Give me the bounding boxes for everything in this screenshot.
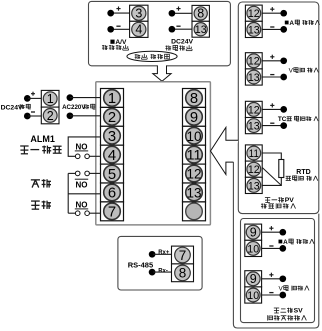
terminal 12 (RTD) [247, 162, 261, 176]
terminal 13 [247, 23, 261, 37]
terminal 1 (DC block) [43, 92, 57, 106]
svg-text:PV: PV [285, 197, 295, 204]
svg-text:NO: NO [76, 200, 88, 209]
terminal 4 cell [130, 21, 148, 37]
svg-text:5: 5 [108, 167, 116, 183]
wire DC24V [28, 97, 41, 99]
terminal 5 [104, 165, 121, 182]
wire [262, 12, 284, 14]
terminal 9 [186, 109, 203, 126]
label forward [31, 200, 40, 202]
svg-text:3: 3 [108, 129, 116, 145]
terminal 12 [247, 6, 261, 20]
resistor RTD [279, 160, 284, 178]
svg-text:13: 13 [187, 184, 202, 200]
SV outer container [233, 162, 318, 328]
svg-text:2: 2 [47, 109, 54, 123]
wire [262, 60, 284, 62]
node - control output [107, 26, 114, 33]
terminal 3 cell [130, 5, 148, 21]
relay contact NO alarm1 [68, 137, 100, 156]
terminal 11 [186, 146, 203, 163]
svg-text:9: 9 [190, 110, 198, 126]
svg-text:12: 12 [248, 8, 260, 20]
node - DC24V [24, 113, 31, 120]
svg-text:12: 12 [248, 56, 260, 68]
big hollow arrow left [211, 127, 239, 174]
wire [262, 231, 283, 233]
svg-text:11: 11 [249, 148, 259, 160]
svg-text:SV: SV [294, 308, 304, 315]
svg-text:13: 13 [248, 24, 260, 36]
svg-text:8: 8 [197, 7, 204, 21]
svg-text:1: 1 [108, 91, 116, 107]
svg-text:A: A [283, 239, 288, 246]
ellipse label output wiring diagram [127, 51, 177, 61]
hollow arrow down [157, 65, 167, 67]
svg-text:8: 8 [179, 266, 187, 281]
terminal 3 [132, 6, 146, 20]
terminal 13 cell (top box) [192, 21, 209, 37]
node Rx- [149, 269, 156, 276]
node + [279, 275, 286, 282]
node AC220V L [67, 94, 74, 101]
svg-text:7: 7 [108, 205, 116, 221]
svg-text:RS-485: RS-485 [128, 261, 153, 270]
label mA/V control output [110, 40, 114, 44]
terminal 13 (top box) [194, 23, 207, 36]
terminal 13 [247, 119, 261, 133]
SV input box [241, 219, 315, 323]
output wiring box [89, 1, 231, 65]
node - [279, 292, 286, 299]
svg-text:2: 2 [108, 110, 116, 126]
right terminal column cells [183, 89, 206, 108]
svg-text:13: 13 [248, 121, 260, 133]
svg-text:V: V [289, 67, 294, 74]
svg-text:ALM1: ALM1 [30, 134, 55, 144]
svg-text:1: 1 [47, 92, 54, 106]
terminal 2 cell (DC block) [41, 107, 59, 124]
svg-text:RTD: RTD [296, 169, 310, 176]
node + DC24V [24, 95, 31, 102]
terminal 10 cell [245, 240, 262, 256]
svg-text:10: 10 [187, 128, 202, 144]
terminal 10 [246, 242, 260, 256]
terminal 4 [132, 22, 146, 36]
svg-text:12: 12 [248, 104, 260, 116]
terminal 9 [246, 225, 260, 239]
svg-text:Rx-: Rx- [158, 268, 168, 274]
node + [280, 106, 287, 113]
terminal 7 (RS485) [175, 247, 191, 263]
node - [280, 74, 287, 81]
terminal 12 [247, 54, 261, 68]
terminal 11 (RTD) [247, 146, 261, 160]
node + [279, 229, 286, 236]
svg-text:V: V [279, 285, 284, 292]
terminal 9 cell [245, 271, 262, 287]
terminal 13 cell [245, 69, 262, 85]
PV input box [238, 2, 318, 214]
terminal 12 cell [245, 53, 262, 69]
terminal 12 cell (RTD) [245, 161, 262, 177]
svg-text:NO: NO [76, 142, 88, 151]
node - feed output [169, 26, 176, 33]
terminal 3 [104, 127, 121, 144]
changeover contacts forward/reverse [68, 172, 75, 174]
svg-text:NO: NO [76, 180, 88, 189]
terminal 12 [247, 103, 261, 117]
svg-text:9: 9 [250, 226, 257, 240]
terminal 8 (RS485) [175, 265, 191, 281]
terminal 13 [247, 70, 261, 84]
wire + control output [111, 12, 130, 14]
svg-text:13: 13 [248, 180, 260, 192]
terminal 7 cell (RS485) [172, 246, 194, 264]
left terminal column cells [101, 89, 124, 108]
terminal 8 cell (RS485) [172, 264, 194, 282]
svg-text:12: 12 [248, 164, 260, 176]
label second channel SV valve feedback input [274, 307, 279, 309]
main terminal block [96, 82, 211, 225]
svg-text:6: 6 [108, 186, 116, 202]
wire [262, 108, 284, 110]
terminal 8 cell (top box) [192, 5, 209, 21]
terminal 10 [186, 127, 203, 144]
wire [262, 278, 283, 280]
terminal 12 cell [245, 5, 262, 21]
svg-text:TC: TC [278, 116, 287, 123]
RS-485 box [118, 236, 202, 290]
terminal 1 [104, 90, 121, 107]
svg-text:12: 12 [187, 166, 202, 182]
label reverse [31, 179, 40, 181]
node + [280, 57, 287, 64]
terminal 4 [104, 146, 121, 163]
label mA current input [285, 21, 289, 25]
terminal 13 cell [245, 21, 262, 37]
label mA current input (SV) [279, 240, 283, 244]
terminal 8 [186, 90, 203, 107]
terminal 9 [246, 272, 260, 286]
svg-text:10: 10 [247, 290, 259, 302]
terminal 13 cell (RTD) [245, 177, 262, 193]
svg-text:3: 3 [135, 7, 142, 21]
svg-text:7: 7 [179, 248, 187, 263]
svg-text:Rx+: Rx+ [158, 250, 170, 256]
wire AC220V [70, 97, 101, 99]
svg-text:DC24V: DC24V [171, 39, 193, 46]
terminal 1 cell (DC block) [41, 90, 59, 107]
terminal 10 cell [245, 287, 262, 303]
node - [279, 245, 286, 252]
terminal 7 [104, 203, 121, 220]
wire + feed output [172, 12, 192, 14]
terminal 13 cell [245, 118, 262, 134]
svg-text:4: 4 [135, 23, 142, 37]
terminal 8 (top box) [194, 7, 207, 20]
terminal 11 cell (RTD) [245, 145, 262, 161]
terminal 9 cell [245, 224, 262, 240]
node + control output [107, 10, 114, 17]
terminal 12 [186, 165, 203, 182]
node Rx+ [149, 251, 156, 258]
svg-text:8: 8 [190, 91, 198, 107]
node - [280, 26, 287, 33]
svg-text:AC220V: AC220V [62, 104, 86, 111]
terminal 13 [186, 184, 203, 201]
wire Rx [153, 253, 172, 255]
label first channel PV measurement input [265, 196, 270, 198]
svg-text:10: 10 [247, 243, 259, 255]
wire diagonal [262, 168, 281, 186]
terminal 13 (RTD) [247, 179, 261, 193]
terminal 2 [104, 109, 121, 126]
node - [280, 122, 287, 129]
svg-text:13: 13 [248, 72, 260, 84]
svg-text:9: 9 [250, 272, 257, 286]
terminal 2 (DC block) [43, 109, 57, 123]
svg-text:13: 13 [195, 24, 207, 36]
terminal 12 cell [245, 101, 262, 117]
svg-text:A: A [289, 20, 294, 27]
svg-text:4: 4 [108, 148, 116, 164]
RTD wiring [262, 153, 281, 160]
node + [280, 10, 287, 17]
node AC220V N [67, 112, 74, 119]
node + feed output [169, 10, 176, 17]
terminal 10 [246, 288, 260, 302]
terminal 6 [104, 184, 121, 201]
svg-text:11: 11 [187, 147, 202, 163]
blank terminal [186, 203, 203, 220]
